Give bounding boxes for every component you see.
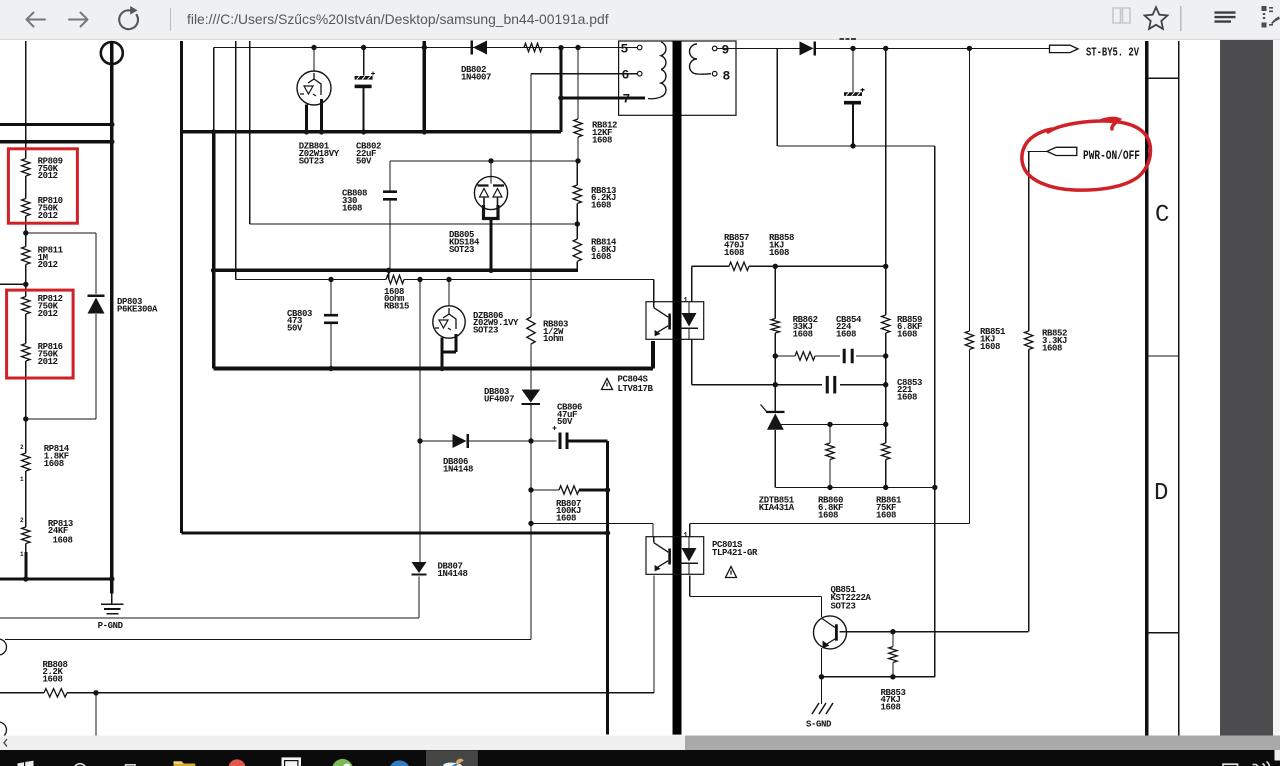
svg-text:SOT23: SOT23	[831, 601, 856, 611]
svg-text:1608: 1608	[881, 703, 901, 713]
svg-text:KIA431A: KIA431A	[759, 503, 795, 513]
svg-text:1608: 1608	[836, 330, 856, 340]
svg-text:ST-BY5. 2V: ST-BY5. 2V	[1086, 46, 1140, 60]
svg-text:P-GND: P-GND	[98, 621, 124, 631]
svg-text:1608: 1608	[342, 203, 362, 213]
svg-text:1N4148: 1N4148	[443, 465, 473, 475]
svg-text:1608: 1608	[53, 536, 73, 546]
svg-text:2012: 2012	[38, 211, 58, 221]
svg-text:S-GND: S-GND	[806, 720, 832, 730]
svg-text:1608: 1608	[769, 248, 789, 258]
svg-text:1: 1	[684, 297, 688, 305]
svg-text:1N4148: 1N4148	[438, 569, 468, 579]
svg-text:RB815: RB815	[384, 302, 409, 312]
svg-text:50V: 50V	[356, 156, 372, 166]
svg-text:1608: 1608	[592, 135, 612, 145]
svg-text:6: 6	[622, 68, 630, 83]
svg-text:5: 5	[621, 42, 629, 57]
svg-text:2012: 2012	[38, 260, 58, 270]
svg-text:1608: 1608	[1042, 343, 1062, 353]
svg-text:SOT23: SOT23	[473, 326, 498, 336]
svg-text:1608: 1608	[876, 510, 896, 520]
svg-text:9: 9	[722, 42, 730, 57]
svg-text:C: C	[1155, 202, 1169, 229]
svg-text:P6KE300A: P6KE300A	[117, 304, 158, 314]
svg-text:1608: 1608	[44, 459, 64, 469]
svg-text:1608: 1608	[897, 393, 917, 403]
svg-text:2012: 2012	[38, 357, 58, 367]
svg-text:SOT23: SOT23	[299, 156, 324, 166]
svg-text:1608: 1608	[724, 248, 744, 258]
svg-text:50V: 50V	[557, 417, 573, 427]
svg-text:1608: 1608	[43, 675, 63, 685]
svg-text:8: 8	[723, 68, 731, 83]
svg-text:1608: 1608	[980, 342, 1000, 352]
svg-text:1608: 1608	[591, 201, 611, 211]
svg-text:1N4007: 1N4007	[461, 72, 491, 82]
svg-text:1ohm: 1ohm	[543, 334, 564, 344]
svg-text:UF4007: UF4007	[484, 394, 514, 404]
svg-text:SOT23: SOT23	[449, 245, 474, 255]
svg-text:50V: 50V	[287, 324, 303, 334]
svg-text:2012: 2012	[38, 171, 58, 181]
svg-text:1608: 1608	[818, 510, 838, 520]
svg-text:2012: 2012	[38, 309, 58, 319]
svg-text:1: 1	[684, 532, 688, 540]
svg-text:1608: 1608	[556, 514, 576, 524]
svg-text:LTV817B: LTV817B	[618, 384, 654, 394]
svg-text:1608: 1608	[793, 330, 813, 340]
svg-text:D: D	[1154, 480, 1168, 507]
svg-text:1608: 1608	[591, 252, 611, 262]
svg-text:file:///C:/Users/Szűcs%20Istvá: file:///C:/Users/Szűcs%20István/Desktop/…	[187, 11, 609, 27]
svg-text:PWR-ON/OFF: PWR-ON/OFF	[1083, 149, 1140, 163]
svg-text:TLP421-GR: TLP421-GR	[712, 548, 758, 558]
svg-text:7: 7	[623, 92, 630, 107]
svg-text:1608: 1608	[897, 330, 917, 340]
